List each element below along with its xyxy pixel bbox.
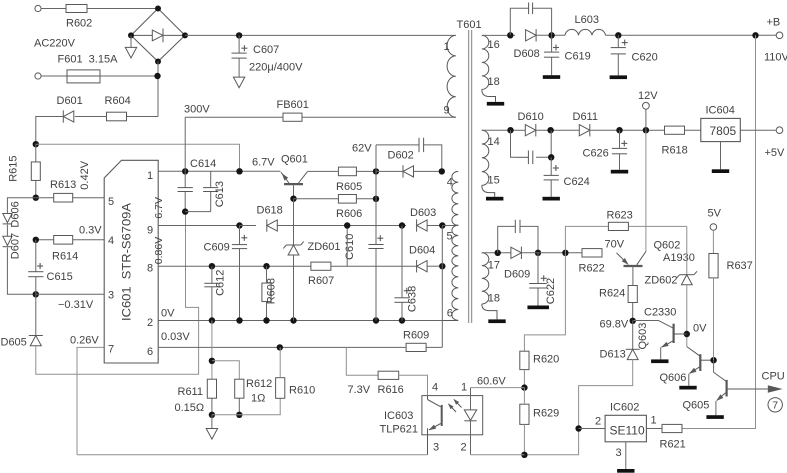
label C622: [545, 278, 557, 304]
resistor R624: [628, 286, 637, 303]
wire node to Q605: [714, 360, 727, 382]
junction R611 top: [209, 358, 215, 364]
wire C619 stems: [551, 35, 553, 75]
svg-text:ZD601: ZD601: [308, 241, 341, 253]
junction startup node A: [33, 141, 39, 147]
wire D606 to D607: [6, 225, 8, 237]
svg-text:7.3V: 7.3V: [348, 384, 371, 396]
wire C612 stems: [211, 266, 213, 320]
arrows LED light emission: [448, 399, 462, 412]
wire R608 stems: [266, 266, 268, 320]
label R621: [660, 439, 686, 451]
pin 18 lower: [488, 293, 500, 305]
diode D613: [626, 349, 640, 359]
wire C614 stems: [184, 171, 186, 211]
label C607 value: [249, 62, 303, 74]
wire R616 tap: [346, 347, 378, 375]
diode D602: [403, 165, 414, 177]
label A1930: [663, 252, 695, 264]
wire R606 line: [294, 198, 377, 200]
ground C622: [527, 306, 549, 310]
wire IC601 pin8 line: [158, 265, 416, 267]
diode D609: [511, 247, 522, 259]
wire 0V node to Q606: [687, 347, 701, 357]
label C614: [190, 158, 216, 170]
junction C622 top: [535, 250, 541, 256]
diode D607: [3, 236, 13, 246]
label 69.8V: [600, 319, 629, 331]
svg-text:C626: C626: [583, 148, 609, 160]
capacitor D602 snubber: [419, 138, 424, 152]
svg-text:+5V: +5V: [765, 147, 786, 159]
label C619: [565, 51, 591, 63]
transistor Q601: [284, 183, 303, 185]
svg-text:1: 1: [147, 170, 153, 182]
wire ZD601 anode down: [293, 255, 295, 321]
wire 0V branch down: [211, 321, 213, 380]
label TLP621: [380, 424, 419, 436]
svg-text:2: 2: [461, 442, 467, 454]
wire C626 stems: [619, 130, 621, 170]
capacitor C620: [611, 48, 626, 54]
svg-text:Q606: Q606: [660, 372, 687, 384]
capacitor D609 snubber: [515, 220, 520, 233]
label 0.26V: [70, 335, 99, 347]
svg-text:R623: R623: [607, 210, 633, 222]
svg-text:C619: C619: [565, 51, 591, 63]
label R637: [727, 260, 753, 272]
junction R629 bottom node: [521, 452, 527, 458]
wire D608 snubber loop: [510, 8, 551, 35]
junction D604 tap: [439, 263, 445, 269]
resistor R604: [107, 112, 127, 121]
bridge rectifier BD601: [131, 9, 185, 62]
capacitor C610: [368, 245, 383, 249]
svg-text:R606: R606: [336, 208, 362, 220]
wire R615 bottom stem: [35, 181, 37, 198]
svg-text:C613: C613: [214, 181, 226, 207]
junction C610 bottom: [373, 317, 379, 323]
pin 14: [488, 136, 500, 148]
label D604: [409, 245, 435, 257]
label R615: [8, 156, 20, 182]
svg-text:5: 5: [447, 231, 453, 243]
junction C620 top: [615, 32, 621, 38]
wire D601 to left corner down: [36, 117, 64, 145]
label T601: [457, 19, 482, 31]
wire IC602 pin3 stem: [625, 442, 627, 469]
svg-text:14: 14: [488, 136, 500, 148]
resistor R618: [665, 126, 685, 134]
plus C610: [377, 235, 383, 241]
label R614: [52, 251, 78, 263]
wire R618 to IC604: [685, 129, 701, 131]
junction D602 transformer pin4: [439, 168, 445, 174]
svg-text:1: 1: [444, 41, 450, 53]
label C2330: [644, 307, 676, 319]
label R620: [533, 354, 559, 366]
wire D618 line: [240, 225, 402, 227]
capacitor C622: [529, 284, 547, 289]
wire Q605 base to CPU line: [727, 388, 768, 390]
pin 17: [488, 260, 500, 272]
svg-text:D613: D613: [600, 349, 626, 361]
wire 70V node to R623 row: [565, 226, 686, 252]
pin 6 of T601: [447, 308, 453, 320]
svg-text:R616: R616: [378, 384, 404, 396]
wire bridge bottom down to fuse node and R604 line: [157, 62, 159, 117]
junction C607 top: [236, 32, 242, 38]
plus C624: [553, 165, 559, 171]
svg-text:4: 4: [432, 382, 438, 394]
capacitor C609: [232, 245, 247, 249]
wire C624 stems: [550, 157, 552, 197]
label R623: [607, 210, 633, 222]
pin 9: [147, 225, 153, 237]
label R613: [50, 179, 76, 191]
svg-text:6: 6: [447, 308, 453, 320]
wire 300V line: [185, 116, 456, 118]
wire D613 to IC602 pin2 node: [524, 360, 632, 455]
wire 12V to Q602 collector: [645, 130, 647, 251]
junction fuse line and bridge bottom: [154, 73, 160, 79]
svg-text:T601: T601: [457, 19, 482, 31]
svg-text:R618: R618: [662, 145, 688, 157]
wire D605 to under-IC run: [36, 212, 199, 375]
wire C610 stems: [375, 199, 377, 321]
wire C613 stems: [210, 171, 212, 211]
svg-text:1: 1: [651, 415, 657, 427]
pin 16: [488, 39, 500, 51]
label F601 3.15A: [58, 54, 119, 66]
svg-text:TLP621: TLP621: [380, 424, 419, 436]
wire D605 branch: [35, 294, 37, 335]
label R604: [105, 95, 131, 107]
diode D611: [579, 124, 590, 136]
svg-text:R607: R607: [308, 275, 334, 287]
svg-text:18: 18: [488, 293, 500, 305]
label 0V ic601: [161, 308, 175, 320]
svg-text:6.7V: 6.7V: [153, 197, 165, 219]
label L603: [575, 14, 599, 26]
capacitor C607: [232, 53, 247, 58]
wire secondary14 to D610: [482, 129, 526, 131]
wire Q603 emitter diagonal with arrow: [661, 341, 674, 348]
label -0.31V: [58, 299, 94, 311]
wire bottom link to R610: [212, 398, 280, 415]
terminal 5V: [710, 224, 717, 231]
label D606: [10, 201, 22, 227]
junction 6.7V rail: [182, 208, 188, 214]
terminal AC line input: [35, 5, 41, 11]
wire secondary14 ground lead: [482, 185, 495, 196]
svg-text:5: 5: [108, 196, 114, 208]
pin 1 of IC601: [147, 170, 153, 182]
label D618: [257, 205, 283, 217]
label 0.42V: [79, 160, 91, 189]
wire R614 line: [36, 239, 104, 241]
svg-text:R621: R621: [660, 439, 686, 451]
label R609: [403, 330, 429, 342]
svg-text:C610: C610: [344, 234, 356, 260]
label IC602: [610, 402, 639, 414]
label D611: [573, 111, 598, 123]
svg-text:R602: R602: [66, 18, 92, 30]
junction 70V tap node: [562, 250, 568, 256]
wire Q601 collector diagonal: [299, 172, 308, 183]
wire 0V line to winding pin6: [442, 320, 458, 322]
label ZD602: [645, 275, 678, 287]
junction C638 top: [399, 222, 405, 228]
diode D608: [526, 29, 537, 41]
svg-text:IC601 STR-S6709A: IC601 STR-S6709A: [122, 203, 134, 321]
label C607: [253, 44, 279, 56]
resistor R610: [276, 378, 285, 399]
junction +B feedback tap: [752, 32, 758, 38]
resistor R616: [378, 371, 399, 379]
resistor R609: [406, 343, 426, 351]
arrow CPU output: [768, 385, 783, 392]
junction pin1-C614: [182, 168, 188, 174]
svg-text:0.42V: 0.42V: [79, 160, 91, 189]
wire secondary17 to D609: [482, 252, 511, 254]
wire C607 stem: [238, 35, 240, 77]
ferrite bead FB601: [283, 113, 302, 121]
wire D609 cathode node: [521, 252, 582, 254]
svg-text:D611: D611: [573, 111, 598, 123]
ground below C607: [233, 77, 244, 88]
svg-text:Q605: Q605: [683, 400, 710, 412]
svg-text:D610: D610: [518, 111, 544, 123]
label IC601 STR-S6709A: [122, 203, 134, 321]
svg-text:R609: R609: [403, 330, 429, 342]
junction transformer pin5 tap: [439, 222, 445, 228]
wire R629 stems: [523, 388, 525, 455]
svg-text:220μ/400V: 220μ/400V: [249, 62, 303, 74]
svg-text:SE110: SE110: [610, 424, 645, 438]
capacitor C613: [203, 188, 218, 192]
label 5V: [708, 208, 722, 220]
wire opto emitter diagonal with arrow: [429, 424, 441, 431]
label R602: [66, 18, 92, 30]
label Q606: [660, 372, 687, 384]
label C610: [344, 234, 356, 260]
svg-text:C612: C612: [215, 270, 227, 296]
wire D613 branch: [632, 321, 634, 349]
junction D609 anode: [495, 250, 501, 256]
wire Q605 emitter diagonal with arrow: [716, 392, 726, 401]
label D609: [504, 269, 530, 281]
label 0.15 ohm: [175, 402, 205, 414]
wire D602 line: [376, 170, 442, 172]
label 60.6V: [477, 376, 506, 388]
wire Q606 emitter to ground: [688, 374, 690, 386]
svg-text:C614: C614: [190, 158, 216, 170]
svg-text:C620: C620: [632, 52, 658, 64]
label IC604: [706, 105, 735, 117]
ground C626: [611, 170, 628, 174]
junction Q601 base node: [290, 196, 296, 202]
svg-text:Q601: Q601: [281, 154, 308, 166]
wire R620 to 60.6V node: [523, 370, 525, 388]
wire C620 stems: [617, 35, 619, 75]
wire IC601 pin9 line: [158, 225, 239, 227]
junction 60.6V node: [521, 384, 527, 390]
junction 69.8V node: [630, 318, 636, 324]
wire +B feedback vertical: [682, 35, 756, 428]
capacitor D610 snubber: [528, 151, 532, 165]
label D602: [388, 150, 414, 162]
svg-text:0.03V: 0.03V: [161, 331, 190, 343]
label D613: [600, 349, 626, 361]
wire R604 right segment: [127, 116, 159, 118]
svg-text:2: 2: [595, 416, 601, 428]
diode IC603 LED: [464, 410, 476, 421]
svg-text:R615: R615: [8, 156, 20, 182]
svg-text:110V: 110V: [764, 52, 787, 64]
wire R611 ground stem: [211, 415, 213, 429]
svg-text:+B: +B: [767, 17, 781, 29]
resistor R629: [520, 404, 529, 424]
svg-text:7: 7: [772, 400, 778, 412]
junction R608 bottom: [263, 317, 269, 323]
resistor R607: [311, 262, 331, 270]
wire secondary16 to D608: [482, 34, 515, 36]
svg-text:AC220V: AC220V: [34, 38, 76, 50]
svg-text:CPU: CPU: [762, 371, 785, 383]
wire bottom return run pin7 to opto pin3: [77, 454, 428, 456]
wire C615 stems: [35, 240, 37, 294]
svg-text:D605: D605: [1, 337, 27, 349]
transistor IC603 phototransistor: [441, 405, 443, 426]
ground Q605: [706, 415, 723, 419]
pin 3 of IC602: [616, 447, 622, 459]
wire secondary17 ground lead: [482, 304, 497, 319]
wire opto pin2 lead: [470, 421, 472, 455]
pin 1 of IC602: [651, 415, 657, 427]
capacitor D608 snubber: [529, 3, 533, 15]
svg-text:R613: R613: [50, 179, 76, 191]
wire 60.6V line: [471, 387, 525, 389]
label Q602: [654, 240, 681, 252]
svg-text:−0.31V: −0.31V: [58, 299, 94, 311]
inductor T601 secondary 14-15: [482, 130, 489, 185]
label SE110 value: [610, 424, 645, 438]
label 7 in circle: [772, 400, 778, 412]
svg-text:0.86V: 0.86V: [153, 237, 165, 264]
label 7.3V: [348, 384, 371, 396]
svg-text:C607: C607: [253, 44, 279, 56]
svg-text:L603: L603: [575, 14, 599, 26]
junction pin9 node: [236, 222, 242, 228]
svg-text:D601: D601: [57, 95, 83, 107]
inductor T601 primary upper: [447, 35, 456, 117]
ground C624: [543, 197, 560, 201]
wire Q601 base stem: [293, 184, 295, 199]
wire Q602 emitter diagonal with arrow: [617, 253, 629, 265]
label 0V node: [693, 323, 707, 335]
label R624: [599, 288, 625, 300]
wire secondary16 ground lead: [482, 89, 496, 102]
label 0.03V: [161, 331, 190, 343]
wire fuse to bridge bottom node: [100, 75, 158, 77]
plus C619: [553, 45, 559, 51]
svg-text:R614: R614: [52, 251, 78, 263]
svg-text:15: 15: [488, 175, 500, 187]
wire D603-D604 bus: [441, 226, 443, 348]
junction bridge left vertex: [128, 32, 134, 38]
ground secondary17: [488, 319, 505, 323]
plus C607: [241, 45, 247, 51]
resistor R605: [338, 167, 356, 176]
wire Q603 collector to 0V node: [674, 333, 687, 335]
wire C638 stems: [401, 226, 403, 321]
wire R611 bottom stem: [211, 398, 213, 415]
inductor L603: [565, 29, 606, 35]
wire D610 parallel cap loop: [511, 130, 552, 157]
svg-text:C638: C638: [407, 286, 419, 312]
wire opto pin3 lead: [427, 428, 429, 455]
wire R605 line: [307, 170, 376, 172]
pin 15: [488, 175, 500, 187]
svg-text:7805: 7805: [710, 124, 737, 138]
wire startup node to C614 branch: [36, 144, 240, 171]
label C638: [407, 286, 419, 312]
pin 2 of IC601: [147, 317, 153, 329]
resistor R623: [608, 222, 628, 230]
wire main positive rail bridge to transformer pin1: [185, 34, 456, 36]
inductor T601 primary lower c: [452, 266, 458, 320]
wire C609 branch: [239, 226, 241, 321]
wire R609 line: [158, 346, 442, 348]
junction R610 top: [277, 344, 283, 350]
wire IC601 pin2 line 0V: [158, 320, 458, 322]
wire IC601 pin7 line: [77, 347, 104, 454]
inductor T601 primary lower b: [452, 225, 458, 266]
junction R605-62V node: [373, 168, 379, 174]
svg-text:F601 3.15A: F601 3.15A: [58, 54, 119, 66]
junction R612 bottom: [236, 412, 242, 418]
label 12V: [638, 90, 658, 102]
junction pin1-startup: [236, 168, 242, 174]
label 7805 value: [710, 124, 737, 138]
capacitor C638: [394, 298, 409, 303]
svg-text:4: 4: [108, 235, 114, 247]
svg-text:3: 3: [433, 442, 439, 454]
junction R614 node: [33, 237, 39, 243]
wire ZD602 anode down: [686, 285, 688, 347]
wire Q605 emitter to ground: [715, 401, 717, 415]
svg-text:R610: R610: [289, 385, 315, 397]
wire IC604 out to +5V: [740, 129, 776, 131]
wire 69.8V to Q603: [633, 321, 674, 329]
svg-text:R605: R605: [336, 181, 362, 193]
ground secondary14: [486, 197, 503, 201]
svg-text:62V: 62V: [352, 143, 372, 155]
ground C620: [610, 75, 627, 79]
svg-text:Q603: Q603: [637, 323, 649, 350]
fuse F601: [67, 70, 100, 83]
label R606: [336, 208, 362, 220]
wire 12V terminal stem: [645, 109, 647, 130]
label 110V: [764, 52, 787, 64]
transistor Q606: [699, 354, 701, 371]
resistor R614: [54, 236, 73, 245]
terminal +5V: [776, 127, 783, 134]
wire Q601 emitter diagonal: [281, 172, 289, 183]
junction C609 bottom: [236, 317, 242, 323]
label 0.3V: [79, 225, 102, 237]
